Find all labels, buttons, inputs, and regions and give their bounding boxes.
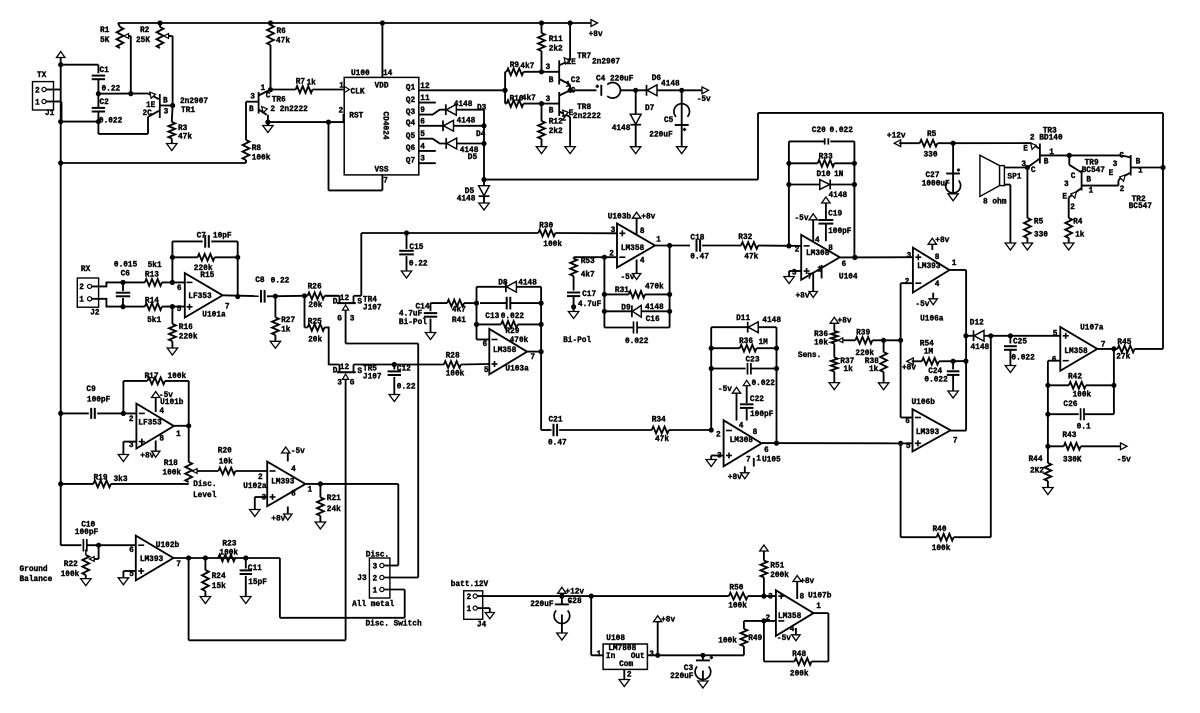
- svg-text:R49: R49: [748, 635, 762, 643]
- svg-text:VSS: VSS: [375, 167, 389, 175]
- svg-text:4148: 4148: [457, 195, 476, 203]
- svg-text:J107: J107: [363, 305, 382, 313]
- svg-text:-5v: -5v: [718, 386, 732, 394]
- svg-text:0.022: 0.022: [752, 380, 776, 388]
- svg-text:220uF: 220uF: [670, 673, 694, 681]
- svg-text:4148: 4148: [518, 279, 537, 287]
- svg-text:-5v: -5v: [777, 635, 791, 643]
- svg-text:1M: 1M: [924, 349, 934, 357]
- svg-text:3: 3: [768, 594, 773, 602]
- svg-text:330: 330: [924, 152, 938, 160]
- svg-text:C7: C7: [197, 233, 207, 241]
- svg-text:0.022: 0.022: [830, 127, 854, 135]
- svg-text:1: 1: [467, 606, 472, 614]
- svg-text:C27: C27: [926, 172, 940, 180]
- svg-text:J1: J1: [45, 110, 55, 118]
- svg-text:3: 3: [1113, 161, 1118, 169]
- svg-text:0.022: 0.022: [501, 313, 525, 321]
- svg-text:G: G: [337, 316, 342, 324]
- svg-text:LM358: LM358: [778, 613, 802, 621]
- svg-text:100k: 100k: [932, 545, 951, 553]
- svg-text:E: E: [1062, 193, 1067, 201]
- svg-text:+8v: +8v: [661, 616, 675, 624]
- svg-text:G: G: [350, 380, 355, 388]
- svg-text:Bi-Pol: Bi-Pol: [563, 337, 591, 345]
- svg-text:1: 1: [816, 603, 821, 611]
- svg-text:R33: R33: [819, 154, 833, 162]
- svg-text:6: 6: [177, 285, 182, 293]
- svg-text:Balance: Balance: [20, 576, 53, 584]
- svg-text:J3: J3: [357, 575, 367, 583]
- svg-text:14: 14: [383, 70, 393, 78]
- svg-text:7: 7: [383, 178, 388, 186]
- svg-text:R42: R42: [1068, 374, 1082, 382]
- svg-text:R34: R34: [652, 417, 666, 425]
- svg-text:5: 5: [906, 443, 911, 451]
- svg-text:0.015: 0.015: [114, 261, 138, 269]
- svg-text:BC547: BC547: [1129, 203, 1153, 211]
- svg-text:C24: C24: [928, 368, 942, 376]
- svg-text:10k: 10k: [814, 340, 828, 348]
- svg-text:B: B: [163, 98, 168, 106]
- svg-text:C3: C3: [684, 665, 694, 673]
- svg-text:100pF: 100pF: [750, 411, 774, 419]
- svg-text:TR5: TR5: [363, 366, 377, 374]
- svg-text:4: 4: [640, 258, 645, 266]
- svg-text:U100: U100: [351, 70, 370, 78]
- svg-text:R23: R23: [222, 541, 236, 549]
- svg-text:U101a: U101a: [202, 312, 226, 320]
- svg-text:1: 1: [597, 651, 602, 659]
- svg-text:C5: C5: [664, 117, 674, 125]
- svg-text:1: 1: [566, 81, 571, 89]
- svg-text:0.022: 0.022: [924, 377, 948, 385]
- svg-text:LM308: LM308: [730, 437, 754, 445]
- svg-text:D3: D3: [477, 105, 487, 113]
- svg-text:Q2: Q2: [406, 97, 416, 105]
- svg-text:0.22: 0.22: [271, 278, 290, 286]
- svg-text:100k: 100k: [61, 571, 80, 579]
- svg-text:100k: 100k: [162, 469, 181, 477]
- svg-text:Q3: Q3: [406, 109, 416, 117]
- svg-text:D12: D12: [970, 320, 984, 328]
- svg-text:7: 7: [808, 273, 813, 281]
- svg-text:C25: C25: [1013, 339, 1027, 347]
- svg-text:+8v: +8v: [935, 237, 949, 245]
- svg-text:1k: 1k: [281, 327, 291, 335]
- svg-text:R51: R51: [770, 562, 784, 570]
- svg-text:+8v: +8v: [271, 516, 285, 524]
- svg-text:R13: R13: [145, 271, 159, 279]
- svg-text:4148: 4148: [661, 81, 680, 89]
- svg-text:D7: D7: [645, 105, 655, 113]
- svg-text:B: B: [1136, 158, 1141, 166]
- svg-text:R50: R50: [729, 585, 743, 593]
- svg-text:CD4024: CD4024: [381, 112, 389, 140]
- svg-text:SP1: SP1: [1007, 174, 1021, 182]
- svg-text:Disc.: Disc.: [193, 481, 216, 489]
- svg-text:C23: C23: [746, 357, 760, 365]
- svg-text:batt.12V: batt.12V: [451, 581, 489, 589]
- svg-text:+8v: +8v: [800, 578, 814, 586]
- svg-text:B: B: [1086, 177, 1091, 185]
- svg-text:1: 1: [373, 587, 378, 595]
- svg-text:U102a: U102a: [243, 483, 267, 491]
- svg-text:1: 1: [1089, 188, 1094, 196]
- svg-text:C18: C18: [690, 235, 704, 243]
- svg-text:C19: C19: [828, 211, 842, 219]
- svg-text:2k2: 2k2: [549, 46, 563, 54]
- svg-text:1: 1: [339, 83, 344, 91]
- svg-text:4148: 4148: [612, 125, 631, 133]
- svg-text:+8v: +8v: [641, 214, 655, 222]
- svg-text:LM393: LM393: [140, 556, 164, 564]
- svg-text:100k: 100k: [728, 603, 747, 611]
- svg-text:LM393: LM393: [917, 263, 941, 271]
- svg-text:2k2: 2k2: [549, 128, 563, 136]
- svg-text:4k7: 4k7: [452, 307, 466, 315]
- svg-text:Com: Com: [619, 661, 633, 669]
- svg-text:47k: 47k: [744, 254, 758, 262]
- svg-text:8: 8: [828, 245, 833, 253]
- svg-text:Q5: Q5: [406, 133, 416, 141]
- svg-text:+8v: +8v: [728, 474, 742, 482]
- svg-text:6: 6: [483, 341, 488, 349]
- svg-text:D: D: [333, 299, 338, 307]
- svg-text:6: 6: [905, 418, 910, 426]
- svg-text:R45: R45: [1117, 339, 1131, 347]
- svg-text:4.7uF: 4.7uF: [578, 301, 602, 309]
- svg-text:U103b: U103b: [608, 214, 632, 222]
- svg-text:LM358: LM358: [1064, 348, 1088, 356]
- svg-text:LF353: LF353: [138, 419, 162, 427]
- svg-text:C: C: [1031, 167, 1036, 175]
- svg-text:R30: R30: [539, 223, 553, 231]
- svg-text:R41: R41: [452, 317, 466, 325]
- svg-text:-5v: -5v: [915, 301, 929, 309]
- svg-text:J107: J107: [363, 374, 382, 382]
- svg-text:-5v: -5v: [1117, 457, 1131, 465]
- svg-text:LM358: LM358: [493, 347, 517, 355]
- svg-text:3: 3: [907, 253, 912, 261]
- svg-text:-5v: -5v: [621, 274, 635, 282]
- svg-text:BC547: BC547: [1082, 167, 1106, 175]
- svg-text:R5: R5: [927, 131, 937, 139]
- svg-text:1: 1: [1138, 168, 1143, 176]
- svg-text:100k: 100k: [252, 155, 271, 163]
- svg-text:J2: J2: [90, 310, 100, 318]
- svg-text:Ground: Ground: [20, 566, 48, 574]
- svg-text:8: 8: [640, 228, 645, 236]
- svg-text:U107b: U107b: [808, 593, 832, 601]
- svg-text:3: 3: [1064, 181, 1069, 189]
- svg-text:220uF: 220uF: [610, 76, 634, 84]
- svg-text:0.022: 0.022: [1011, 354, 1035, 362]
- svg-text:U103a: U103a: [505, 365, 529, 373]
- svg-text:3: 3: [337, 380, 342, 388]
- svg-text:8 ohm: 8 ohm: [983, 198, 1007, 206]
- svg-text:100pF: 100pF: [87, 397, 111, 405]
- svg-text:5k1: 5k1: [147, 317, 161, 325]
- svg-text:5K: 5K: [100, 37, 110, 45]
- svg-text:220uF: 220uF: [530, 601, 554, 609]
- svg-text:2: 2: [795, 246, 800, 254]
- svg-text:330K: 330K: [1063, 457, 1082, 465]
- svg-text:-5v: -5v: [159, 392, 173, 400]
- svg-text:0.22: 0.22: [397, 383, 416, 391]
- svg-text:25K: 25K: [136, 37, 150, 45]
- svg-text:Sens.: Sens.: [798, 352, 821, 360]
- svg-text:6: 6: [764, 447, 769, 455]
- svg-text:1E: 1E: [567, 59, 577, 67]
- svg-text:R40: R40: [933, 526, 947, 534]
- svg-text:+8v: +8v: [796, 293, 810, 301]
- svg-text:2: 2: [79, 284, 84, 292]
- svg-text:R37: R37: [840, 358, 854, 366]
- svg-text:220k: 220k: [855, 350, 874, 358]
- svg-text:S: S: [357, 368, 362, 376]
- svg-text:TR7: TR7: [577, 53, 591, 61]
- svg-text:R36: R36: [814, 331, 828, 339]
- svg-text:R6: R6: [277, 28, 287, 36]
- svg-text:U106b: U106b: [912, 399, 936, 407]
- svg-text:1: 1: [35, 100, 40, 108]
- svg-text:B: B: [1044, 159, 1049, 167]
- svg-text:U106a: U106a: [920, 316, 944, 324]
- svg-text:2: 2: [258, 474, 263, 482]
- svg-text:C16: C16: [646, 316, 660, 324]
- svg-text:1: 1: [308, 487, 313, 495]
- svg-text:15k: 15k: [212, 583, 226, 591]
- svg-text:R17: R17: [145, 373, 159, 381]
- svg-text:R31: R31: [615, 287, 629, 295]
- svg-text:-5v: -5v: [291, 448, 305, 456]
- svg-text:C13: C13: [485, 313, 499, 321]
- svg-text:C6: C6: [121, 271, 131, 279]
- svg-text:Level: Level: [193, 492, 217, 500]
- svg-text:3: 3: [546, 96, 551, 104]
- svg-text:R22: R22: [64, 561, 78, 569]
- svg-text:-5v: -5v: [697, 96, 711, 104]
- svg-text:+8v: +8v: [140, 453, 154, 461]
- svg-text:C11: C11: [248, 565, 262, 573]
- svg-text:2: 2: [339, 108, 344, 116]
- svg-text:47k: 47k: [178, 134, 192, 142]
- svg-text:4: 4: [159, 408, 164, 416]
- svg-text:8: 8: [753, 429, 758, 437]
- svg-text:+8v: +8v: [589, 31, 603, 39]
- svg-text:D: D: [333, 368, 338, 376]
- svg-text:C15: C15: [409, 244, 423, 252]
- svg-text:R44: R44: [1029, 456, 1043, 464]
- svg-text:R11: R11: [549, 36, 563, 44]
- svg-text:C20: C20: [812, 127, 826, 135]
- svg-text:8: 8: [291, 491, 296, 499]
- svg-text:R16: R16: [179, 324, 193, 332]
- svg-text:VDD: VDD: [375, 83, 389, 91]
- svg-text:2: 2: [373, 575, 378, 583]
- svg-text:Bi-Pol: Bi-Pol: [399, 319, 427, 327]
- svg-text:1N: 1N: [834, 171, 844, 179]
- svg-text:2: 2: [129, 416, 134, 424]
- svg-text:+8v: +8v: [838, 318, 852, 326]
- svg-text:TR1: TR1: [181, 107, 195, 115]
- svg-text:S: S: [357, 298, 362, 306]
- svg-text:LM393: LM393: [271, 479, 295, 487]
- svg-text:R5: R5: [1034, 219, 1044, 227]
- svg-text:2: 2: [1070, 204, 1075, 212]
- svg-text:470k: 470k: [645, 284, 664, 292]
- svg-text:5k1: 5k1: [148, 262, 162, 270]
- svg-text:100k: 100k: [718, 638, 737, 646]
- svg-text:+12v: +12v: [887, 132, 906, 140]
- svg-text:4: 4: [739, 422, 744, 430]
- svg-text:C: C: [266, 93, 271, 101]
- svg-text:1: 1: [656, 236, 661, 244]
- svg-text:1: 1: [79, 297, 84, 305]
- svg-text:R14: R14: [145, 298, 159, 306]
- svg-text:R36: R36: [739, 338, 753, 346]
- svg-text:Disc. Switch: Disc. Switch: [366, 621, 422, 629]
- svg-text:3: 3: [262, 495, 267, 503]
- svg-text:B: B: [549, 108, 554, 116]
- svg-text:R54: R54: [920, 341, 934, 349]
- svg-text:U102b: U102b: [156, 542, 180, 550]
- svg-text:47k: 47k: [655, 436, 669, 444]
- svg-text:C4: C4: [596, 76, 606, 84]
- svg-text:5: 5: [484, 367, 489, 375]
- svg-text:2 2n2222: 2 2n2222: [270, 106, 308, 114]
- svg-text:R19: R19: [94, 475, 108, 483]
- svg-text:TR6: TR6: [272, 97, 286, 105]
- svg-text:C: C: [1119, 153, 1124, 161]
- svg-text:TR8: TR8: [577, 104, 591, 112]
- svg-text:C8: C8: [255, 277, 265, 285]
- svg-text:3: 3: [250, 93, 255, 101]
- svg-text:R38: R38: [865, 358, 879, 366]
- svg-text:1: 1: [756, 455, 761, 463]
- svg-text:10k: 10k: [219, 458, 233, 466]
- svg-text:27k: 27k: [1116, 353, 1130, 361]
- svg-text:5: 5: [129, 571, 134, 579]
- svg-text:R48: R48: [792, 651, 806, 659]
- svg-text:R4: R4: [1073, 219, 1083, 227]
- svg-text:2: 2: [716, 432, 721, 440]
- svg-text:15pF: 15pF: [248, 579, 267, 587]
- svg-text:47k: 47k: [276, 38, 290, 46]
- svg-text:D5: D5: [468, 154, 478, 162]
- svg-text:3: 3: [373, 563, 378, 571]
- svg-text:12: 12: [340, 364, 350, 372]
- svg-text:0.1: 0.1: [1077, 424, 1091, 432]
- svg-text:E: E: [1023, 146, 1028, 154]
- svg-text:+12v: +12v: [565, 589, 584, 597]
- svg-text:U105: U105: [762, 456, 781, 464]
- svg-text:4148: 4148: [645, 304, 664, 312]
- svg-text:100pF: 100pF: [828, 228, 852, 236]
- svg-text:4: 4: [291, 466, 296, 474]
- svg-text:D6: D6: [652, 75, 662, 83]
- svg-text:4148: 4148: [454, 101, 473, 109]
- svg-text:3: 3: [350, 316, 355, 324]
- svg-text:R3: R3: [178, 125, 188, 133]
- svg-text:1k: 1k: [1075, 232, 1085, 240]
- svg-text:1: 1: [952, 260, 957, 268]
- svg-text:D11: D11: [736, 315, 750, 323]
- svg-text:7: 7: [746, 456, 751, 464]
- svg-text:2: 2: [467, 594, 472, 602]
- svg-text:12: 12: [340, 295, 350, 303]
- svg-text:RX: RX: [81, 266, 91, 274]
- svg-text:2n2907: 2n2907: [180, 98, 208, 106]
- svg-text:LF353: LF353: [188, 293, 212, 301]
- svg-text:U108: U108: [606, 635, 625, 643]
- svg-text:5: 5: [177, 306, 182, 314]
- svg-text:4148: 4148: [829, 192, 848, 200]
- svg-text:200k: 200k: [770, 572, 789, 580]
- svg-text:2C: 2C: [143, 110, 153, 118]
- svg-text:8: 8: [935, 254, 940, 262]
- svg-text:100k: 100k: [219, 550, 238, 558]
- svg-text:TR4: TR4: [363, 297, 377, 305]
- svg-text:Out: Out: [631, 653, 645, 661]
- svg-text:100pF: 100pF: [75, 529, 99, 537]
- svg-text:330: 330: [1034, 232, 1048, 240]
- svg-text:-5v: -5v: [795, 215, 809, 223]
- svg-text:0.022: 0.022: [625, 338, 649, 346]
- svg-text:C2: C2: [100, 99, 110, 107]
- svg-text:1000uF: 1000uF: [922, 180, 950, 188]
- svg-text:C26: C26: [1063, 401, 1077, 409]
- svg-text:R27: R27: [281, 317, 295, 325]
- svg-text:R20: R20: [218, 447, 232, 455]
- svg-text:R26: R26: [308, 284, 322, 292]
- svg-text:7: 7: [530, 354, 535, 362]
- svg-text:R53: R53: [581, 258, 595, 266]
- svg-text:200k: 200k: [790, 671, 809, 679]
- svg-text:R39: R39: [856, 329, 870, 337]
- svg-text:1k: 1k: [843, 366, 853, 374]
- svg-text:C12: C12: [397, 365, 411, 373]
- svg-text:7: 7: [953, 437, 958, 445]
- svg-text:3: 3: [717, 453, 722, 461]
- svg-text:R2: R2: [140, 27, 150, 35]
- svg-text:D10: D10: [817, 171, 831, 179]
- svg-text:All metal: All metal: [352, 601, 394, 609]
- svg-text:R8: R8: [252, 145, 262, 153]
- svg-text:20k: 20k: [308, 302, 322, 310]
- svg-text:D9: D9: [621, 304, 631, 312]
- svg-text:4.7uF: 4.7uF: [399, 311, 423, 319]
- svg-text:Q4: Q4: [406, 120, 416, 128]
- svg-text:4: 4: [935, 281, 940, 289]
- svg-text:2n2222: 2n2222: [573, 113, 601, 121]
- svg-text:7: 7: [176, 561, 181, 569]
- svg-text:5: 5: [1053, 331, 1058, 339]
- svg-text:+8v: +8v: [902, 364, 916, 372]
- svg-text:RST: RST: [349, 113, 363, 121]
- svg-text:6: 6: [129, 547, 134, 555]
- svg-text:0.022: 0.022: [99, 118, 123, 126]
- svg-text:R43: R43: [1062, 432, 1076, 440]
- svg-text:3: 3: [1021, 161, 1026, 169]
- svg-text:3: 3: [611, 227, 616, 235]
- svg-text:2K2: 2K2: [1030, 468, 1044, 476]
- svg-text:Q1: Q1: [406, 85, 416, 93]
- svg-text:C: C: [571, 88, 576, 96]
- svg-text:1E: 1E: [146, 102, 156, 110]
- svg-text:R15: R15: [200, 272, 214, 280]
